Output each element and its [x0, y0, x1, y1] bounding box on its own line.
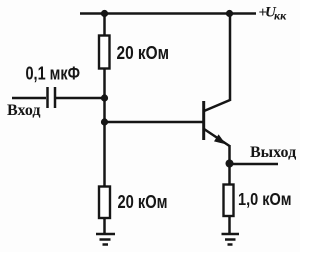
- svg-text:кк: кк: [274, 9, 287, 23]
- svg-text:20 кОм: 20 кОм: [117, 43, 170, 63]
- svg-text:Выход: Выход: [250, 144, 296, 161]
- svg-text:1,0 кОм: 1,0 кОм: [238, 189, 292, 209]
- svg-text:0,1 мкФ: 0,1 мкФ: [26, 64, 81, 84]
- svg-text:20 кОм: 20 кОм: [118, 192, 168, 212]
- svg-text:Вход: Вход: [7, 102, 40, 119]
